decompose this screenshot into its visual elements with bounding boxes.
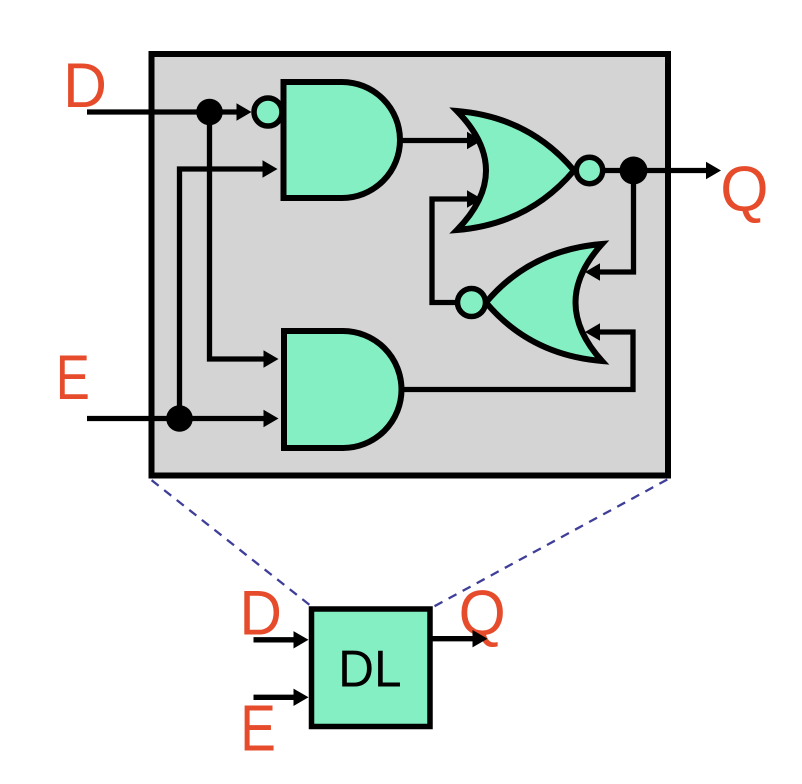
- wire AND2 output to NOR2: [401, 332, 633, 390]
- arrowhead D into DL: [294, 631, 309, 648]
- bubble NOR2 output: [458, 289, 486, 317]
- wire E into DL: [254, 695, 296, 700]
- arrowhead into NOR1 input 1: [467, 132, 482, 149]
- arrowhead Q output: [706, 162, 721, 179]
- arrowhead E into DL: [294, 689, 309, 706]
- wire Q feedback down to NOR2 input 1: [600, 171, 634, 273]
- arrowhead E into AND1 bottom input: [263, 160, 278, 177]
- DL block symbol: [312, 609, 431, 727]
- svg-text:E: E: [240, 692, 276, 765]
- wire E vertical up to AND1: [180, 169, 264, 419]
- wire Q out of DL: [430, 636, 474, 641]
- wire D into DL: [254, 637, 296, 642]
- arrowhead into NOR2 input 1: [585, 263, 600, 280]
- arrowhead Q out of DL: [473, 630, 488, 647]
- arrowhead into NOR2 input 2: [585, 323, 600, 340]
- or gate NOR1: [457, 111, 574, 230]
- enclosing gray box (latch internals): [152, 54, 669, 476]
- or gate NOR2 (mirrored, points left): [486, 244, 602, 361]
- wire D vertical down to AND2: [210, 112, 265, 359]
- wire AND1 output to NOR1: [400, 138, 469, 143]
- dashed expansion line left: [152, 480, 311, 606]
- bubble NOR1 output: [576, 157, 602, 183]
- and gate AND1 (inverted D input): [284, 82, 401, 198]
- node E junction: [166, 405, 193, 432]
- arrowhead D into AND2 top input: [264, 350, 279, 367]
- svg-text:E: E: [56, 343, 90, 413]
- wire E input horizontal: [87, 416, 264, 421]
- inverter bubble on AND1 input: [254, 98, 282, 126]
- wire NOR2 bubble to NOR1 input 2 (elbow): [432, 199, 468, 303]
- svg-text:Q: Q: [720, 153, 768, 225]
- arrowhead E into AND2 bottom input: [264, 410, 279, 427]
- node D junction: [196, 99, 223, 126]
- arrowhead D into bubble: [237, 103, 252, 120]
- wire D input horizontal: [87, 109, 238, 114]
- svg-text:DL: DL: [338, 641, 402, 699]
- and gate AND2: [284, 331, 402, 448]
- arrowhead into NOR1 input 2: [467, 190, 482, 207]
- dashed expansion line right: [435, 480, 668, 607]
- wire NOR1 bubble to Q: [601, 168, 707, 173]
- node Q junction: [620, 157, 648, 185]
